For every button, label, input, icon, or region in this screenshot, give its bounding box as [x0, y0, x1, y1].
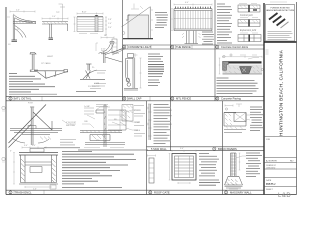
- footing sub-notes: [44, 140, 80, 148]
- svg-text:HUNTINGTON BEACH, CALIFORNIA: HUNTINGTON BEACH, CALIFORNIA: [279, 49, 284, 136]
- svg-text:L&D: L&D: [278, 193, 291, 199]
- svg-text:STUCCO: STUCCO: [134, 110, 142, 112]
- svg-text:Expansion joint: Expansion joint: [240, 29, 257, 32]
- svg-text:1'-4": 1'-4": [108, 23, 112, 25]
- svg-text:THE FENCE: THE FENCE: [176, 45, 191, 49]
- svg-text:5 SIGN WALL: 5 SIGN WALL: [151, 148, 167, 151]
- svg-text:A. NORTH: A. NORTH: [266, 159, 277, 162]
- bottom strip titles: [9, 191, 12, 194]
- svg-text:4 1/2": 4 1/2": [101, 49, 106, 51]
- thick divider: [264, 41, 297, 43]
- svg-text:4" MIN: 4" MIN: [94, 83, 100, 85]
- svg-text:CONCRETE LIGHT: CONCRETE LIGHT: [128, 45, 151, 49]
- svg-text:ROOF GATE: ROOF GATE: [154, 191, 170, 195]
- wire horizontal bottom strip: [6, 189, 264, 191]
- caption under section: [78, 149, 148, 151]
- sheet border frame: [6, 2, 297, 195]
- svg-text:3'-0": 3'-0": [24, 145, 28, 147]
- right vertical dim stack: [105, 17, 107, 35]
- left edge detail bubbles: [2, 106, 5, 109]
- svg-text:2'-6": 2'-6": [33, 188, 37, 190]
- wire horizontal mid strip row1: [123, 44, 264, 46]
- wire horizontal mid strip row2: [147, 146, 264, 148]
- wall elevation detail: [74, 13, 104, 34]
- fence footing notes: [202, 32, 214, 44]
- svg-text:BRICK PAVERS: BRICK PAVERS: [218, 147, 237, 151]
- svg-text:SHEET: SHEET: [266, 189, 273, 191]
- base line: [223, 73, 263, 75]
- svg-text:MASONRY WALL: MASONRY WALL: [230, 191, 252, 195]
- svg-text:JOB: JOB: [266, 139, 271, 141]
- control joint small details: [238, 4, 261, 42]
- lower block rows: [264, 136, 297, 138]
- top dim: [223, 56, 263, 58]
- wire horizontal row1 bottom strip: [6, 95, 264, 97]
- svg-text:CHECKED: CHECKED: [266, 167, 276, 169]
- wire vertical divider x=215 row1: [214, 0, 216, 101]
- svg-text:2x CAP: 2x CAP: [84, 105, 91, 108]
- svg-text:PL: PL: [17, 29, 19, 31]
- svg-text:8'-0": 8'-0": [82, 12, 87, 14]
- control joints notes column: [217, 4, 232, 43]
- bracket detail left: [12, 14, 36, 42]
- panel grid lines: [6, 0, 264, 195]
- title block left edge: [263, 3, 265, 195]
- svg-text:LANDSCAPE ARCHITECTURE: LANDSCAPE ARCHITECTURE: [266, 9, 295, 12]
- svg-text:NO: NO: [290, 160, 294, 162]
- svg-text:4" SQ POST: 4" SQ POST: [66, 122, 77, 124]
- svg-text:2'-0": 2'-0": [16, 10, 20, 12]
- wire vertical divider x=146.5 rows2-3: [146, 101, 148, 195]
- svg-text:P.L.: P.L.: [92, 67, 95, 69]
- svg-text:GRADE: GRADE: [134, 129, 141, 132]
- row3 left notes: [62, 152, 136, 188]
- svg-text:Concrete Paving: Concrete Paving: [221, 97, 241, 101]
- wire vertical divider x=122.5 row1: [122, 0, 124, 101]
- wall cap scroll detail: [96, 37, 125, 56]
- bracket dims: [7, 11, 35, 18]
- panel2 bottom: light std. base detail: [124, 53, 142, 90]
- panel3 right title (mid strip): [216, 45, 219, 48]
- svg-text:TRASH ENCL: TRASH ENCL: [15, 191, 33, 195]
- panel3 bottom titles (row1 bottom strip): [123, 97, 126, 100]
- svg-text:MTL DETAIL: MTL DETAIL: [15, 97, 33, 101]
- panel1 notes list: [9, 74, 57, 95]
- svg-text:#4 BAR: #4 BAR: [134, 121, 141, 124]
- svg-text:FILL: FILL: [114, 119, 117, 121]
- svg-text:FOOTING TYP: FOOTING TYP: [88, 86, 100, 88]
- svg-text:SEE PLAN: SEE PLAN: [66, 124, 75, 127]
- svg-text:10": 10": [104, 35, 107, 37]
- svg-text:LIGHT: LIGHT: [47, 56, 54, 58]
- svg-text:1'-0": 1'-0": [52, 16, 56, 18]
- top tick: [270, 1, 287, 3]
- svg-text:TS: TS: [22, 19, 24, 21]
- svg-text:457-75.2: 457-75.2: [266, 183, 276, 186]
- svg-text:WALL CAP: WALL CAP: [128, 97, 142, 101]
- dark slab bar: [229, 61, 262, 63]
- svg-text:3'-0": 3'-0": [32, 145, 36, 147]
- svg-text:6'-0": 6'-0": [185, 2, 189, 4]
- panel2 mid title: [123, 45, 126, 48]
- wire vertical divider x=222.5 rows2-3: [222, 101, 224, 195]
- panel1 title bar: [9, 97, 12, 100]
- firm logo diagonal bars: [269, 13, 289, 28]
- stamp marks: [266, 50, 269, 54]
- left turndown edge: [223, 61, 229, 70]
- panel3 left title (in mid strip): [171, 45, 174, 48]
- stipple ground: [223, 65, 263, 75]
- panel2 top notes: [155, 13, 168, 28]
- wire vertical divider x=170.3: [169, 0, 171, 151]
- svg-text:2'-8": 2'-8": [108, 19, 112, 21]
- top right small detail: [101, 49, 122, 63]
- panel2 bottom notes: [148, 54, 164, 86]
- mid dark mound: [240, 67, 252, 74]
- svg-text:Control joint: Control joint: [240, 14, 253, 17]
- svg-text:Concrete Control Joints: Concrete Control Joints: [221, 45, 249, 49]
- svg-text:2'-0": 2'-0": [108, 27, 112, 29]
- light pole cable diagram: [30, 53, 105, 80]
- svg-text:3'-0": 3'-0": [180, 148, 184, 150]
- svg-text:DATE: DATE: [266, 179, 272, 182]
- beam-post detail right: [42, 4, 68, 40]
- callout bubbles: [223, 55, 225, 57]
- paving notes: [217, 78, 259, 94]
- firm box: [266, 5, 295, 42]
- svg-text:MTL FENCE: MTL FENCE: [176, 97, 191, 101]
- svg-text:SLOPE: SLOPE: [113, 53, 120, 55]
- svg-text:1/2" CABLE: 1/2" CABLE: [41, 62, 51, 65]
